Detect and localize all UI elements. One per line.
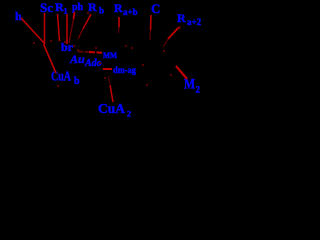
svg-text:b: b — [74, 76, 80, 87]
leader line to M2 — [176, 66, 187, 79]
svg-text:R: R — [177, 11, 186, 25]
svg-text:C: C — [151, 1, 160, 16]
svg-text:2: 2 — [127, 110, 131, 119]
svg-text:a+2: a+2 — [187, 17, 202, 27]
leader line from Sc (vertical) — [44, 13, 46, 43]
svg-text:h: h — [15, 9, 22, 23]
leader line from Rb — [83, 14, 91, 29]
svg-text:CuA: CuA — [98, 102, 126, 117]
svg-text:Sc: Sc — [40, 0, 53, 15]
svg-text:Au: Au — [69, 52, 85, 66]
svg-text:ph: ph — [72, 2, 84, 13]
leader line from Ra+2 (diagonal, fading) — [168, 28, 179, 40]
leader line from R1 — [58, 14, 60, 41]
svg-text:R: R — [114, 1, 123, 15]
svg-text:CuA: CuA — [51, 70, 72, 85]
leader line from ph — [74, 12, 75, 19]
leader line from C (fading) — [150, 15, 153, 30]
svg-text:a+b: a+b — [123, 7, 138, 17]
svg-text:MM: MM — [103, 51, 117, 60]
svg-text:2: 2 — [196, 85, 201, 95]
svg-text:b: b — [99, 6, 104, 16]
svg-text:R: R — [88, 0, 97, 14]
svg-text:dm-ag: dm-ag — [113, 65, 136, 75]
leader line to CuA_b — [44, 44, 57, 73]
short horizontal to dm-ag — [103, 68, 112, 70]
red nub below Ra+2 — [179, 26, 181, 29]
leader line from h — [21, 18, 45, 44]
leader line to CuA_2 — [110, 85, 113, 102]
leader line from Ra+b (fading) — [118, 17, 120, 27]
faint speckles — [33, 12, 172, 87]
leader line from comma/sub1 — [66, 14, 68, 44]
dashed horizontal to MM — [78, 51, 89, 54]
